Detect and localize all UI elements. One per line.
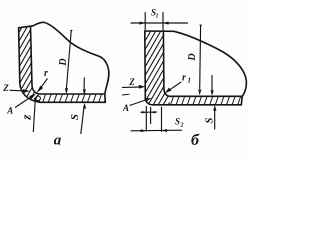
svg-text:а: а — [54, 133, 62, 149]
svg-text:S: S — [175, 117, 180, 127]
svg-text:r: r — [44, 68, 48, 79]
svg-text:б: б — [191, 132, 200, 149]
svg-text:A: A — [6, 106, 13, 116]
svg-text:z: z — [19, 114, 34, 121]
svg-text:Z: Z — [2, 83, 9, 93]
svg-text:D: D — [187, 53, 198, 61]
svg-text:D: D — [58, 58, 69, 66]
svg-text:1: 1 — [188, 77, 192, 85]
svg-text:S: S — [204, 117, 216, 123]
svg-text:1: 1 — [156, 14, 159, 20]
svg-text:Z: Z — [128, 77, 135, 87]
svg-text:S: S — [69, 114, 81, 120]
svg-text:r: r — [182, 73, 186, 84]
svg-text:A: A — [122, 103, 129, 113]
svg-text:2: 2 — [180, 123, 184, 129]
